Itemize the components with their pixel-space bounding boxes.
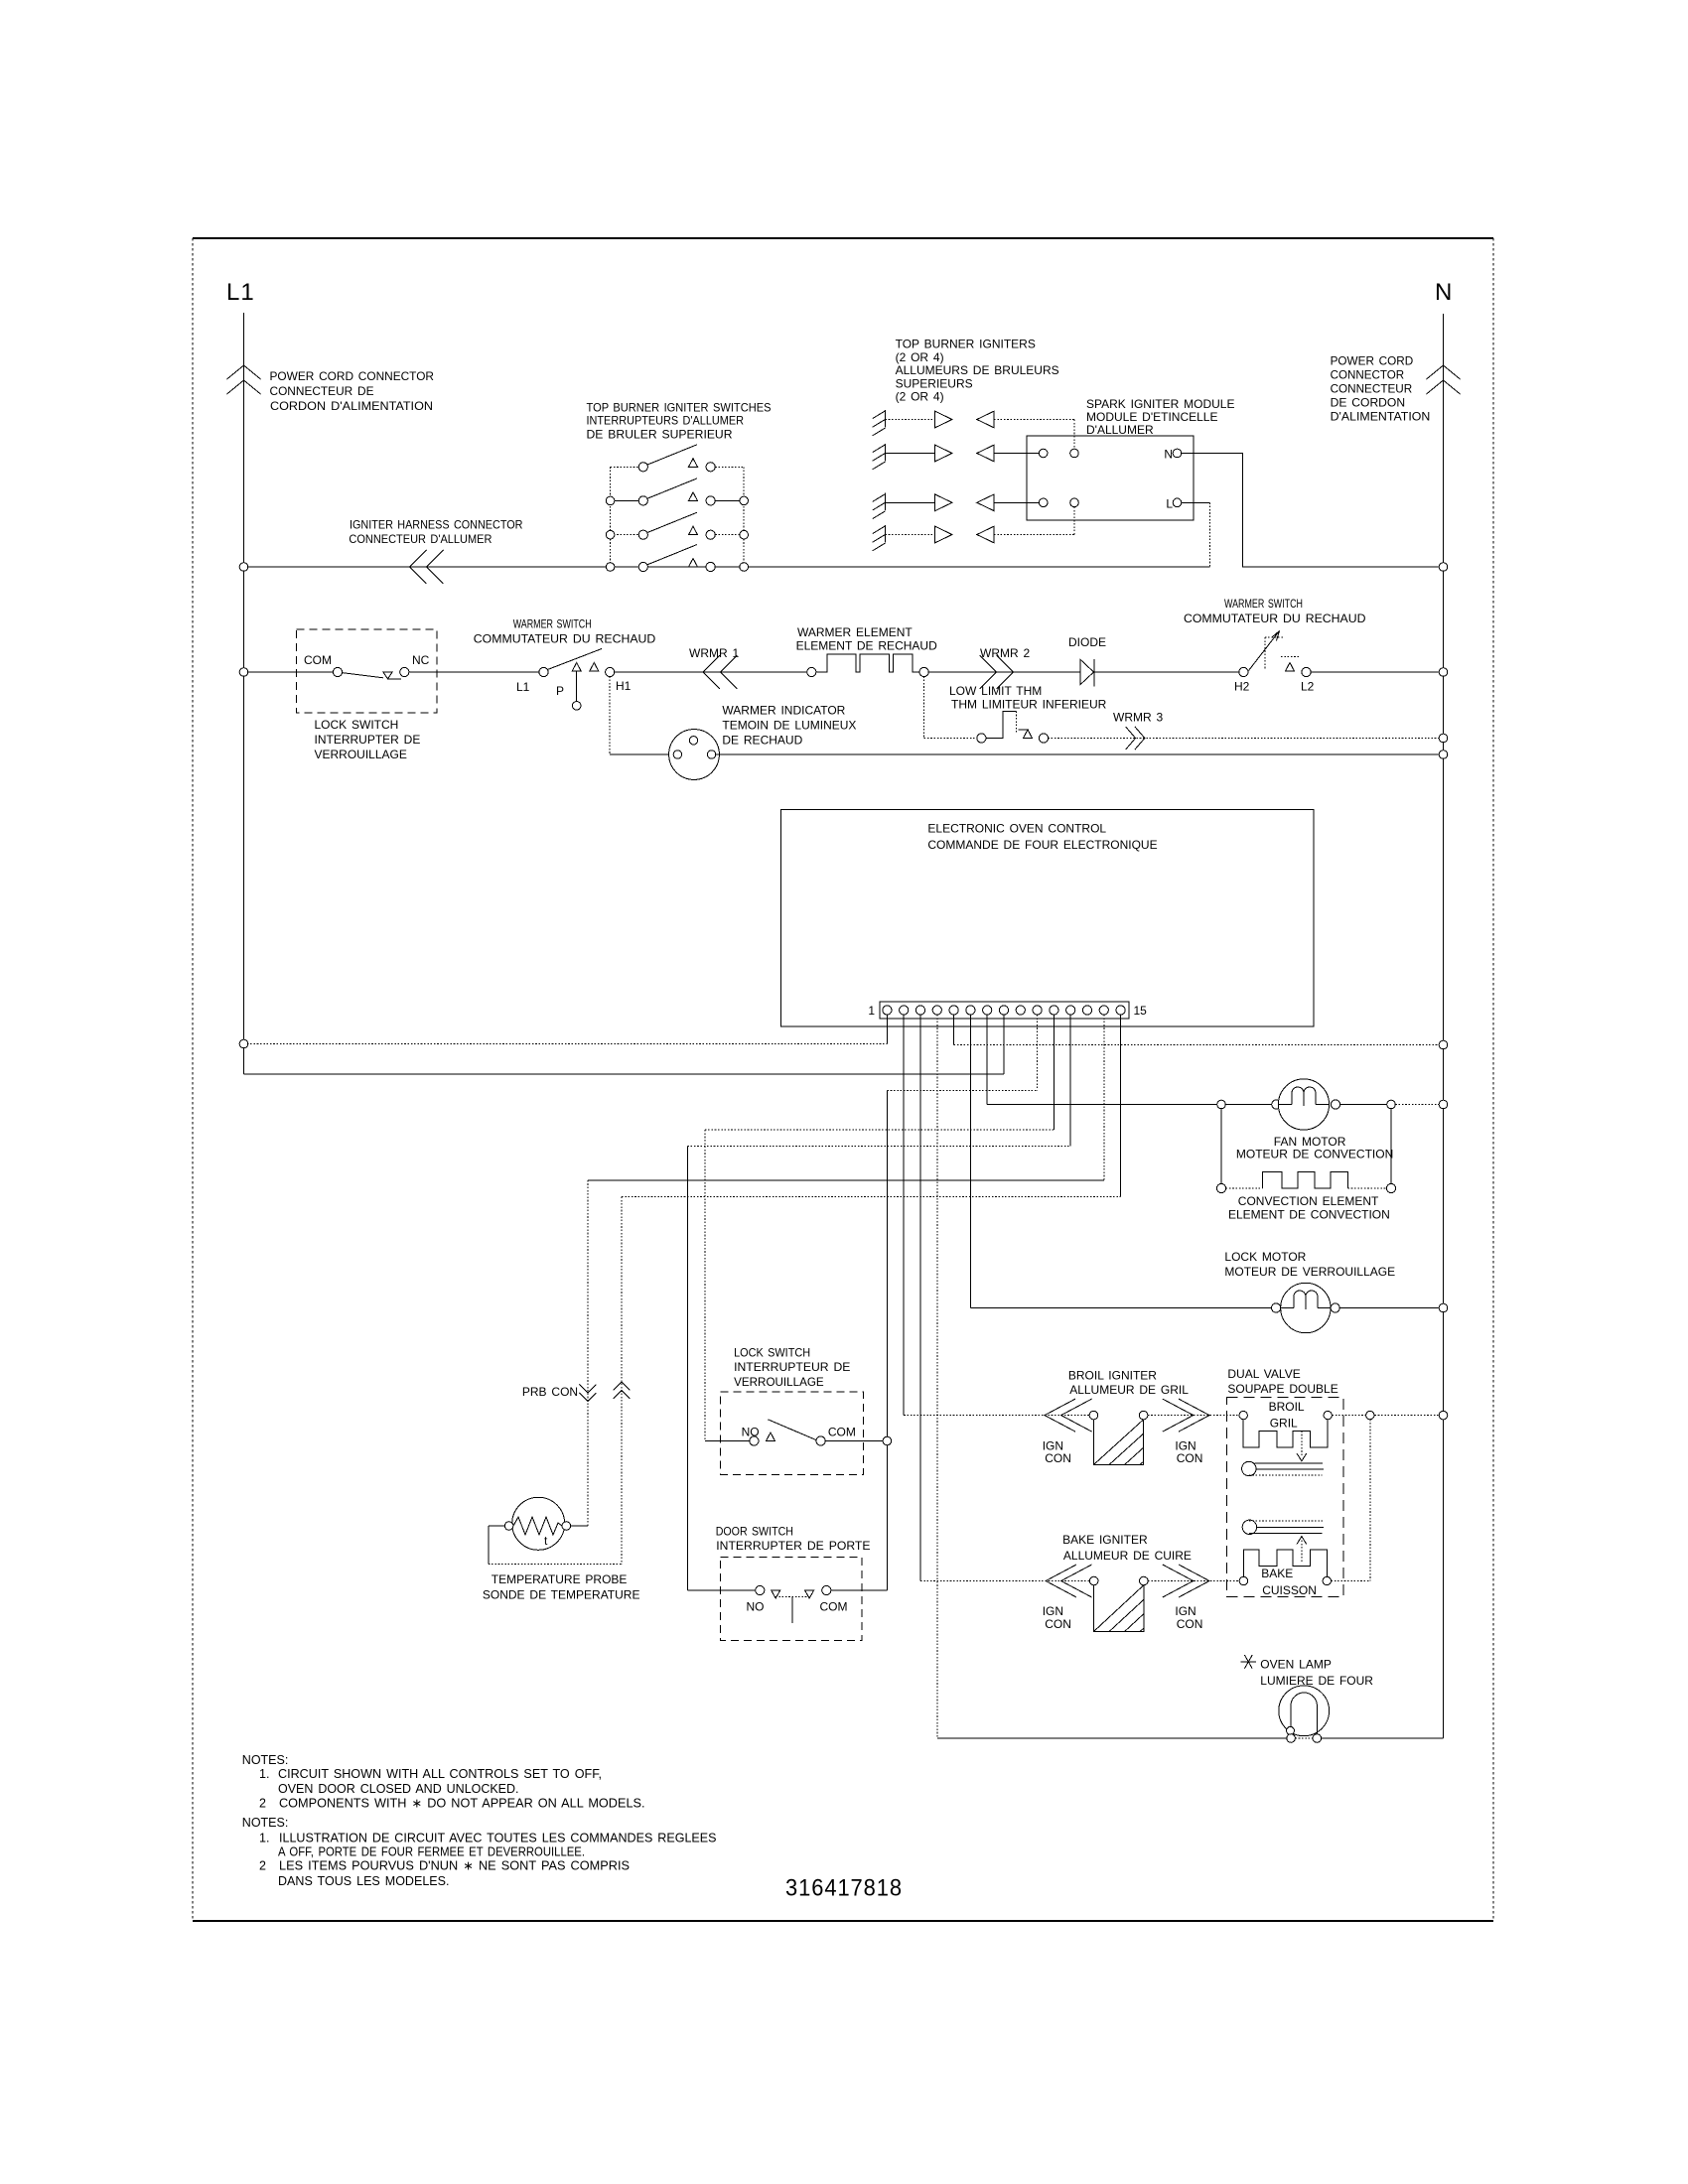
svg-text:INTERRUPTEURS D'ALLUMER: INTERRUPTEURS D'ALLUMER [587,414,745,428]
svg-text:WRMR 1: WRMR 1 [689,646,739,660]
top burner igniter switch bank dashed bus [610,467,612,567]
svg-text:THM LIMITEUR INFERIEUR: THM LIMITEUR INFERIEUR [951,698,1107,712]
svg-text:WARMER SWITCH: WARMER SWITCH [513,617,592,631]
svg-text:ALLUMEUR DE CUIRE: ALLUMEUR DE CUIRE [1063,1549,1192,1563]
svg-text:VERROUILLAGE: VERROUILLAGE [734,1375,824,1389]
svg-text:CON: CON [1045,1451,1071,1465]
wire bake rail to broil junction [1369,1420,1371,1581]
door switch S7 (NO/COM) [687,1589,755,1591]
svg-text:VERROUILLAGE: VERROUILLAGE [315,748,407,761]
wire warmer switch right to N bus [1311,671,1439,673]
wire N bus vertical [1443,314,1445,1738]
wire to fan motor [1225,1104,1271,1106]
junction fan rail / convection element [1217,1100,1226,1109]
svg-text:SPARK IGNITER MODULE: SPARK IGNITER MODULE [1086,397,1234,411]
svg-text:OVEN LAMP: OVEN LAMP [1260,1658,1332,1672]
svg-text:LOCK SWITCH: LOCK SWITCH [315,718,399,732]
svg-text:L1: L1 [226,279,255,306]
EOC pin 12 [1066,1006,1075,1015]
svg-text:POWER CORD CONNECTOR: POWER CORD CONNECTOR [270,369,435,383]
svg-text:CON: CON [1177,1451,1203,1465]
svg-text:LOCK SWITCH: LOCK SWITCH [734,1345,810,1359]
svg-text:(2 OR 4): (2 OR 4) [896,350,944,364]
wire pin4 rail to oven lamp [937,1737,1287,1739]
top burner igniter E4 electrode [884,525,886,542]
svg-text:TEMPERATURE PROBE: TEMPERATURE PROBE [492,1572,628,1586]
junction N bus / indicator rail [1439,751,1448,759]
EOC pin 3 [915,1006,924,1015]
connector PRB CON (probe side) [579,1385,596,1394]
wire bake igniter to valve [1148,1580,1239,1582]
wire igniter row 3 to spark module [994,501,1027,503]
svg-text:LOCK MOTOR: LOCK MOTOR [1224,1250,1306,1264]
junction broil/bake rails [1366,1411,1374,1419]
temperature probe RT1 [512,1497,565,1550]
wire pin11 to lock switch NO [1053,1015,1055,1130]
wire spark module L to igniter rail [1208,502,1210,567]
wire pin10 to lock/door switch common [1037,1015,1039,1090]
svg-text:IGNITER HARNESS CONNECTOR: IGNITER HARNESS CONNECTOR [350,518,523,532]
svg-text:FAN MOTOR: FAN MOTOR [1274,1135,1346,1149]
svg-text:L2: L2 [1301,680,1315,694]
wire igniter E1 to connector [885,419,934,421]
connector IGN CON bake right [1163,1565,1194,1597]
broil valve flow arrow [1301,1431,1303,1457]
warmer switch S3 left (L1/P/H1) [539,667,548,676]
warmer switch S4 right (H2/L2) [1239,667,1248,676]
igniter connector arrows row 4 [935,526,952,543]
igniter connector arrows row 2 [935,445,952,462]
top burner igniter E1 electrode [884,410,886,427]
fan motor M1 [1272,1100,1281,1109]
svg-text:ALLUMEUR DE GRIL: ALLUMEUR DE GRIL [1069,1383,1189,1397]
lock switch S6 (NO/COM) [705,1440,750,1442]
connector PRB CON (harness side) [614,1382,631,1391]
EOC pin 9 [1016,1006,1025,1015]
junction N bus / warmer rail [1439,668,1448,677]
connector WRMR 2 [997,655,1014,689]
svg-text:BROIL: BROIL [1269,1400,1305,1414]
EOC pin 4 [932,1006,941,1015]
spark igniter module U1 [1027,436,1194,520]
junction igniter rail / switch bank right [740,563,749,572]
connector IGN CON broil right [1163,1399,1194,1432]
top burner igniter switch S4 [611,566,639,568]
spark module pin L [1173,498,1182,507]
wire pin2 rail to broil igniter [904,1415,1089,1417]
spark module pin N [1173,449,1182,458]
svg-text:DIODE: DIODE [1068,635,1106,649]
svg-text:H2: H2 [1234,680,1250,694]
wire pin7 to fan motor rail [986,1015,988,1105]
wire warmer indicator to N bus [716,753,1439,755]
igniter connector arrows row 3 [935,494,952,511]
EOC pin 15 [1116,1006,1125,1015]
svg-text:CORDON D'ALIMENTATION: CORDON D'ALIMENTATION [270,399,433,413]
svg-text:WARMER SWITCH: WARMER SWITCH [1224,597,1303,611]
svg-text:DANS TOUS LES MODELES.: DANS TOUS LES MODELES. [278,1874,450,1888]
dual valve dashed enclosure [1227,1398,1343,1597]
convection element R2 [1216,1183,1225,1192]
igniter harness connector chevrons [410,550,427,584]
wire warmer element to diode [928,671,1080,673]
svg-text:INTERRUPTEUR DE: INTERRUPTEUR DE [734,1360,850,1374]
svg-text:TEMOIN DE LUMINEUX: TEMOIN DE LUMINEUX [722,719,856,733]
svg-text:2: 2 [259,1796,266,1810]
dual valve broil coil [1239,1411,1247,1419]
connector WRMR 3 [1135,727,1145,750]
svg-text:COMMUTATEUR DU RECHAUD: COMMUTATEUR DU RECHAUD [474,632,656,646]
wire lock motor to N bus [1339,1307,1439,1309]
EOC pin header [880,1002,1129,1019]
svg-text:TOP BURNER IGNITERS: TOP BURNER IGNITERS [896,338,1036,351]
junction N bus / broil rail [1439,1411,1448,1420]
wire broil igniter to valve [1148,1415,1239,1417]
power cord connector (N) chevrons [1427,365,1461,379]
top burner igniter E2 electrode [884,444,886,461]
wire pin12 to door switch NO [1069,1015,1071,1147]
svg-text:NC: NC [412,653,430,667]
wire spark module N to N bus [1182,454,1439,568]
svg-text:COM: COM [820,1599,848,1613]
svg-text:CONNECTEUR DE: CONNECTEUR DE [270,384,374,398]
svg-text:(2 OR 4): (2 OR 4) [896,390,944,404]
svg-text:NOTES:: NOTES: [242,1753,289,1767]
diode D1 [1080,660,1093,685]
EOC pin 2 [900,1006,909,1015]
connector IGN CON broil left [1045,1399,1075,1432]
EOC pin 13 [1082,1006,1091,1015]
svg-text:COMPONENTS WITH ∗ DO NOT APPEA: COMPONENTS WITH ∗ DO NOT APPEAR ON ALL M… [279,1796,645,1810]
lock switch S6 dashed enclosure [721,1392,864,1474]
power cord connector (L1) chevrons [227,365,261,379]
svg-text:MODULE D'ETINCELLE: MODULE D'ETINCELLE [1086,410,1218,424]
lock motor M2 [1272,1303,1281,1312]
convection element R2 drop wires [1220,1109,1222,1183]
svg-text:DOOR SWITCH: DOOR SWITCH [716,1525,793,1539]
junction N bus / WRMR 3 rail [1439,734,1448,743]
svg-text:316417818: 316417818 [785,1875,903,1902]
oven lamp DS2 [1279,1686,1330,1736]
wire H1 to warmer indicator [609,676,611,754]
svg-text:N: N [1435,279,1453,306]
svg-text:CONVECTION ELEMENT: CONVECTION ELEMENT [1238,1194,1379,1208]
lock switch S2 (COM/NC) [333,667,342,676]
top burner igniter switch S1 [611,466,639,468]
top burner igniter switch S3 [611,534,639,536]
door switch S7 dashed enclosure [721,1558,863,1641]
svg-text:LES ITEMS POURVUS D'NUN ∗ NE S: LES ITEMS POURVUS D'NUN ∗ NE SONT PAS CO… [279,1859,630,1873]
wire igniter rail L1 to spark module [244,566,1210,568]
svg-text:CONNECTEUR: CONNECTEUR [1331,382,1413,396]
svg-text:ALLUMEURS DE BRULEURS: ALLUMEURS DE BRULEURS [896,363,1059,377]
svg-text:1.: 1. [259,1831,269,1844]
svg-text:ELECTRONIC OVEN CONTROL: ELECTRONIC OVEN CONTROL [927,821,1106,835]
svg-text:D'ALLUMER: D'ALLUMER [1086,423,1154,437]
svg-text:WARMER ELEMENT: WARMER ELEMENT [797,625,913,639]
low limit thermostat S5 [977,734,986,743]
wire warmer switch to warmer element [615,671,808,673]
wire igniter E2 to connector [885,453,934,455]
svg-text:BAKE IGNITER: BAKE IGNITER [1062,1533,1148,1547]
wire warmer element to low limit thermostat [923,676,925,738]
svg-text:COM: COM [304,653,332,667]
svg-text:ELEMENT DE RECHAUD: ELEMENT DE RECHAUD [796,638,937,652]
wire pin4 to oven lamp rail [936,1015,938,1738]
top burner igniter switch S2 [611,499,639,501]
svg-text:15: 15 [1134,1004,1148,1018]
svg-text:WARMER INDICATOR: WARMER INDICATOR [722,704,845,718]
wire pin6 to lock motor rail [969,1015,971,1308]
junction L1 bus / pin1 wire [239,1039,248,1048]
svg-text:COMMANDE DE FOUR ELECTRONIQUE: COMMANDE DE FOUR ELECTRONIQUE [927,838,1157,852]
dual valve bake coil [1239,1576,1247,1584]
svg-text:SONDE DE TEMPERATURE: SONDE DE TEMPERATURE [483,1588,640,1602]
wire pin3 rail to bake igniter [920,1580,1089,1582]
junction L1 bus / warmer rail [239,668,248,677]
svg-text:GRIL: GRIL [1270,1417,1298,1431]
wire igniter row 4 to spark module (dashed) [994,534,1074,536]
wire pin1 to L1 bus [886,1015,888,1044]
svg-text:CUISSON: CUISSON [1262,1583,1317,1597]
bake valve flow arrow [1301,1541,1303,1564]
broil burner tube [1242,1461,1256,1475]
wire igniter E4 to connector [885,534,934,536]
svg-text:NO: NO [742,1426,760,1439]
igniter connector arrows row 1 [935,411,952,428]
wire fan motor to N bus [1340,1104,1387,1106]
asterisk marker oven lamp [1241,1655,1257,1669]
EOC pin 10 [1033,1006,1042,1015]
svg-text:1: 1 [868,1004,875,1018]
connector WRMR 1 [703,655,720,689]
svg-text:ELEMENT DE CONVECTION: ELEMENT DE CONVECTION [1228,1207,1390,1221]
wire oven lamp to N bus [1322,1737,1444,1739]
wire warmer rail from L1 bus [248,671,334,673]
warmer indicator lamp DS1 [669,730,720,780]
svg-text:WRMR 2: WRMR 2 [980,646,1030,660]
svg-text:MOTEUR DE CONVECTION: MOTEUR DE CONVECTION [1236,1148,1393,1161]
junction N bus / spark module N wire [1439,563,1448,572]
svg-text:P: P [556,684,564,698]
lock switch S2 dashed enclosure [297,629,438,713]
svg-text:TOP BURNER IGNITER SWITCHES: TOP BURNER IGNITER SWITCHES [587,400,772,414]
electronic oven control U2 [780,810,1314,1026]
svg-text:A OFF, PORTE DE FOUR FERMEE ET: A OFF, PORTE DE FOUR FERMEE ET DEVERROUI… [278,1845,585,1859]
svg-text:H1: H1 [616,679,632,693]
wire lock switch to warmer switch [409,671,539,673]
broil igniter E5 [1089,1411,1098,1420]
svg-text:LOW LIMIT THM: LOW LIMIT THM [949,684,1042,698]
svg-text:MOTEUR DE VERROUILLAGE: MOTEUR DE VERROUILLAGE [1224,1265,1395,1279]
EOC pin 7 [983,1006,992,1015]
warmer element R1 [807,667,816,676]
bake burner tube [1242,1520,1256,1534]
wire pin2 to broil igniter rail [903,1015,905,1416]
svg-text:OVEN DOOR CLOSED AND UNLOCKED.: OVEN DOOR CLOSED AND UNLOCKED. [278,1782,519,1796]
wire pin14 to temperature probe [1103,1015,1105,1180]
svg-text:CON: CON [1177,1617,1203,1631]
wire pin8 to L1 bus [1003,1015,1005,1074]
wire pin5 to N bus [953,1015,955,1045]
junction N bus / pin5 wire [1439,1040,1448,1049]
svg-text:CONNECTOR: CONNECTOR [1331,367,1405,381]
svg-text:CONNECTEUR D'ALLUMER: CONNECTEUR D'ALLUMER [349,532,492,546]
junction N bus / fan rail [1439,1100,1448,1109]
EOC pin 14 [1099,1006,1108,1015]
junction N bus / lock motor rail [1439,1303,1448,1312]
wire broil rail to N bus [1333,1415,1440,1417]
svg-text:CON: CON [1045,1617,1071,1631]
svg-text:COMMUTATEUR DU RECHAUD: COMMUTATEUR DU RECHAUD [1184,612,1366,625]
svg-text:NO: NO [747,1599,765,1613]
wire pin15 to temperature probe return [1120,1015,1122,1197]
EOC pin 6 [966,1006,975,1015]
svg-text:DE BRULER SUPERIEUR: DE BRULER SUPERIEUR [587,427,733,441]
EOC pin 5 [949,1006,958,1015]
junction L1 bus / igniter rail [239,563,248,572]
EOC pin 1 [883,1006,892,1015]
wire diode to warmer switch right [1094,671,1239,673]
svg-text:POWER CORD: POWER CORD [1331,353,1414,367]
EOC pin 11 [1050,1006,1058,1015]
svg-text:NOTES:: NOTES: [242,1816,289,1830]
svg-text:N: N [1164,448,1173,462]
wire L1 bus vertical [243,313,245,1074]
svg-text:COM: COM [828,1426,856,1439]
svg-text:INTERRUPTER DE: INTERRUPTER DE [315,733,421,747]
wire low limit thm to N bus (WRMR 3) [1048,738,1439,740]
svg-text:L: L [1166,496,1173,510]
bake igniter E6 [1089,1576,1098,1585]
svg-text:DUAL VALVE: DUAL VALVE [1227,1367,1300,1381]
svg-text:SUPERIEURS: SUPERIEURS [896,376,973,390]
connector IGN CON bake left [1046,1565,1076,1597]
wire pin6 rail to lock motor [970,1307,1271,1309]
top burner igniter E3 electrode [884,493,886,510]
svg-text:BROIL IGNITER: BROIL IGNITER [1068,1369,1157,1383]
svg-text:LUMIERE DE FOUR: LUMIERE DE FOUR [1260,1674,1373,1688]
EOC pin 8 [999,1006,1008,1015]
svg-text:DE CORDON: DE CORDON [1331,396,1406,410]
svg-text:2: 2 [259,1859,266,1873]
svg-text:1.: 1. [259,1767,269,1781]
wire igniter row 2 to spark module [994,453,1027,455]
svg-text:ILLUSTRATION DE CIRCUIT AVEC T: ILLUSTRATION DE CIRCUIT AVEC TOUTES LES … [279,1831,717,1844]
junction lock switch COM / pin10 wire [883,1436,892,1445]
wire pin3 to bake igniter rail [919,1015,921,1581]
svg-text:BAKE: BAKE [1261,1567,1293,1580]
wire igniter row 1 to spark module (dashed) [994,419,1074,421]
svg-text:DE RECHAUD: DE RECHAUD [722,733,802,747]
wire pin7 rail to fan motor [987,1104,1216,1106]
svg-text:CIRCUIT SHOWN WITH ALL CONTROL: CIRCUIT SHOWN WITH ALL CONTROLS SET TO O… [278,1767,602,1781]
svg-text:SOUPAPE DOUBLE: SOUPAPE DOUBLE [1227,1382,1337,1396]
svg-text:WRMR 3: WRMR 3 [1113,711,1163,725]
wire igniter E3 to connector [885,501,934,503]
svg-text:INTERRUPTER DE PORTE: INTERRUPTER DE PORTE [716,1539,870,1553]
svg-text:L1: L1 [516,680,530,694]
svg-text:D'ALIMENTATION: D'ALIMENTATION [1331,410,1431,424]
svg-text:PRB CON: PRB CON [522,1385,578,1399]
